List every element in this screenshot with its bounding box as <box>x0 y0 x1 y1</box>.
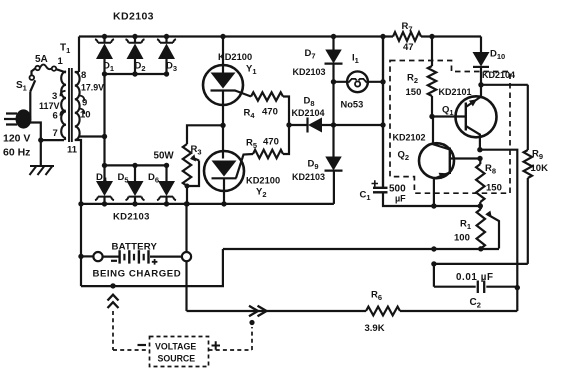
battery plus sign <box>152 259 158 265</box>
junction C2 right <box>515 285 520 290</box>
diode D5 <box>134 165 136 181</box>
junction D8 right <box>380 122 385 127</box>
wire top bus <box>79 35 481 37</box>
svg-text:10: 10 <box>80 110 91 121</box>
resistor R5 <box>253 150 283 158</box>
resistor R2 150 <box>431 37 433 67</box>
svg-text:KD2100: KD2100 <box>218 52 252 62</box>
junction D8 left <box>286 122 291 127</box>
svg-text:17.9V: 17.9V <box>81 83 104 93</box>
junction battery bottom tap <box>110 283 115 288</box>
capacitor C1 500uF <box>382 37 384 188</box>
svg-text:KD2103: KD2103 <box>292 172 325 182</box>
resistor R9 10K <box>527 85 529 150</box>
svg-text:BATTERY: BATTERY <box>112 242 158 253</box>
diode D3 <box>165 37 167 44</box>
diode D2 <box>134 37 136 44</box>
svg-text:VOLTAGE: VOLTAGE <box>155 342 196 352</box>
junction R7 right <box>429 34 434 39</box>
diode D7 KD2103 <box>332 37 334 50</box>
svg-text:120 V: 120 V <box>3 133 30 145</box>
junction tap <box>102 134 107 139</box>
wire D4-D6 anode bus <box>105 164 167 166</box>
battery minus sign <box>111 260 117 262</box>
wire Y2 cathode to bus <box>223 178 225 204</box>
resistor R3 50W rheostat <box>183 144 191 186</box>
wire Y2 gate <box>236 154 253 178</box>
wire D1-D3 anode bus <box>105 73 167 75</box>
diode D6 <box>165 165 167 181</box>
wire battery right terminal up <box>185 204 187 252</box>
svg-text:8: 8 <box>81 70 86 81</box>
dashed box KD2102 module <box>390 61 510 194</box>
junction dots bottom bus <box>102 201 107 206</box>
voltage source box <box>150 337 209 367</box>
diode D4 <box>103 165 105 181</box>
svg-text:KD2101: KD2101 <box>439 87 472 97</box>
resistor R4 <box>251 92 283 100</box>
capacitor C2 0.01uF <box>434 264 476 287</box>
battery terminal right <box>182 252 191 261</box>
svg-text:0.01 µF: 0.01 µF <box>456 272 494 283</box>
junction dots anode bus 2 <box>102 163 107 168</box>
svg-text:BEING CHARGED: BEING CHARGED <box>93 269 182 280</box>
svg-text:150: 150 <box>406 87 422 98</box>
svg-text:6: 6 <box>53 111 58 122</box>
junction D10 bottom <box>478 82 483 87</box>
junction R8-R1 node <box>478 203 483 208</box>
resistor R8 150 <box>479 159 481 165</box>
resistor R1 100 rheostat <box>477 209 485 249</box>
SCR Y2 KD2100 <box>204 151 244 191</box>
wire Y1 gate <box>235 91 251 97</box>
transformer T1 <box>60 68 84 142</box>
fuse 5A <box>32 68 36 75</box>
junction battery minus tap <box>78 254 83 259</box>
junction C1 bottom node <box>431 203 436 208</box>
wire lamp column <box>382 37 384 189</box>
wire secondary bottom rail <box>75 140 81 204</box>
diode D8 KD2104 <box>289 124 307 126</box>
junction Y1 cathode node <box>220 123 225 128</box>
svg-text:KD2104: KD2104 <box>292 108 325 118</box>
wire ground drop <box>40 140 42 165</box>
junction dots top bus <box>102 34 107 39</box>
wire transformer tap to vertical <box>79 135 105 137</box>
junction Y2 bus <box>221 201 226 206</box>
wire R9 bottom to C1 column <box>434 263 528 265</box>
svg-text:KD2103: KD2103 <box>113 212 150 223</box>
junction plug-ground <box>38 137 43 142</box>
arrow chevrons right <box>249 306 267 316</box>
diode D10 KD2104 <box>480 37 482 53</box>
transistor Q2 KD2102 <box>419 143 454 178</box>
svg-text:50W: 50W <box>154 151 175 162</box>
svg-text:150: 150 <box>486 183 502 194</box>
junction R1 bottom <box>478 246 483 251</box>
svg-text:KD2103: KD2103 <box>293 67 326 77</box>
wire bottom bus <box>81 171 334 204</box>
wire battery right terminal down to R6 wire <box>187 261 367 311</box>
wire Q1 collector to right column <box>480 150 517 288</box>
svg-text:5A: 5A <box>35 54 48 65</box>
dashed wire voltage source minus <box>113 311 150 350</box>
svg-text:KD2102: KD2102 <box>393 133 426 143</box>
svg-text:470: 470 <box>263 137 279 148</box>
junction battery column bus <box>184 201 189 206</box>
junction dots anode bus 1 <box>102 71 107 76</box>
dashed wire voltage source plus <box>209 327 253 350</box>
switch S1 <box>30 75 35 80</box>
svg-text:60 Hz: 60 Hz <box>3 147 30 159</box>
diode D1 <box>103 37 105 44</box>
lamp I1 No53 <box>334 81 384 83</box>
SCR Y1 KD2100 <box>203 65 243 105</box>
svg-text:3.9K: 3.9K <box>365 323 385 334</box>
resistor R7 47 <box>393 32 421 41</box>
svg-text:47: 47 <box>403 42 414 53</box>
junction Q1 base <box>429 114 434 119</box>
resistor R6 3.9K <box>366 307 400 316</box>
wire vertical D1 anode to D4 bus <box>103 74 105 165</box>
wire secondary-top to bus <box>75 37 79 73</box>
wire battery left rail <box>81 204 499 286</box>
wire D10 node to R9 <box>481 84 528 86</box>
svg-text:100: 100 <box>454 233 470 244</box>
battery terminal left <box>81 255 93 257</box>
junction Q1 collector node <box>477 147 482 152</box>
transistor Q1 KD2101 <box>456 96 497 137</box>
wire Y1 cathode down <box>222 91 224 159</box>
wire Y1-Y2 node to R3 <box>187 125 223 144</box>
svg-text:SOURCE: SOURCE <box>158 354 196 364</box>
svg-text:KD2100: KD2100 <box>246 176 280 186</box>
svg-text:10K: 10K <box>531 163 549 174</box>
svg-text:117V: 117V <box>39 101 60 111</box>
svg-text:1: 1 <box>58 56 64 67</box>
junction battery wire C1 column <box>431 246 436 251</box>
wire plug lower lead to pin 7 <box>24 123 65 141</box>
junction D8 column <box>331 122 336 127</box>
svg-text:11: 11 <box>67 145 78 156</box>
plug 120V 60Hz <box>16 109 32 128</box>
svg-text:470: 470 <box>262 107 278 118</box>
ground <box>30 166 55 175</box>
voltage source plus sign <box>212 341 221 349</box>
svg-text:µF: µF <box>395 194 406 204</box>
voltage source minus sign <box>138 344 147 346</box>
junction lamp right <box>380 79 385 84</box>
svg-text:KD2103: KD2103 <box>113 11 154 23</box>
svg-text:No53: No53 <box>341 100 364 110</box>
junction dashed plus end <box>249 320 254 325</box>
junction R9 wire at column <box>431 261 436 266</box>
junction lamp left <box>331 79 336 84</box>
battery cells <box>103 256 182 258</box>
junction rail-bus <box>78 201 83 206</box>
junction Q2 base node <box>477 156 482 161</box>
arrow chevrons up <box>108 295 119 308</box>
svg-text:9: 9 <box>82 98 87 109</box>
wire switch to plug <box>24 92 30 118</box>
diode D9 KD2103 <box>332 125 334 157</box>
svg-text:7: 7 <box>53 128 58 139</box>
